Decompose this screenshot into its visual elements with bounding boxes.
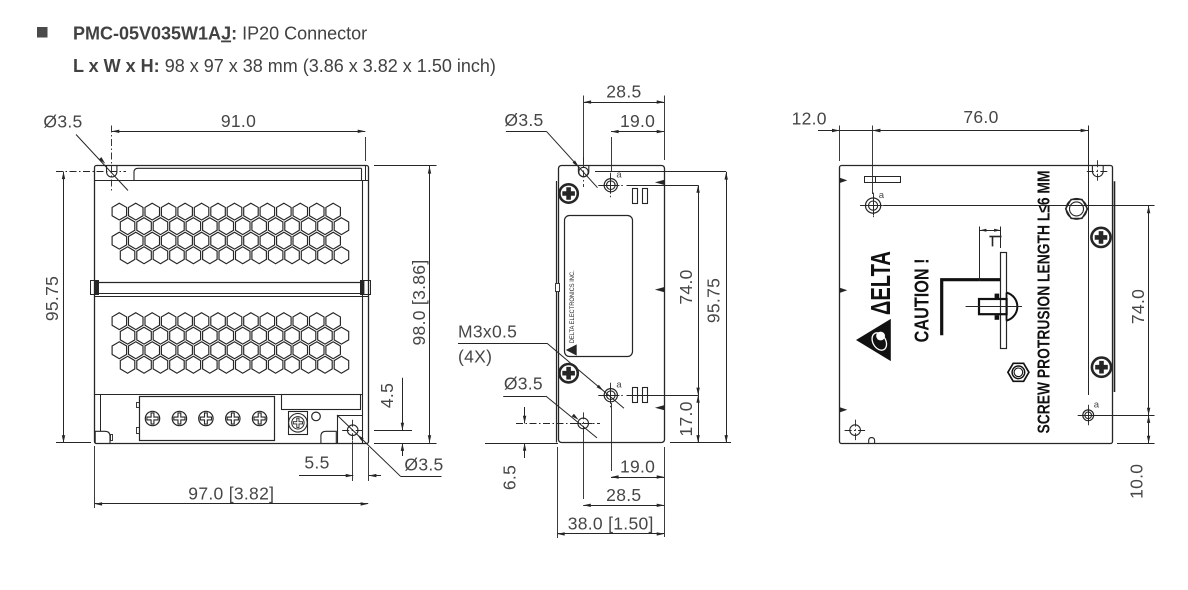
side view: bottom hole: [578, 418, 589, 429]
svg-text:Ø3.5: Ø3.5: [504, 374, 543, 394]
front view: terminal screw 3: [199, 411, 213, 425]
svg-text:97.0 [3.82]: 97.0 [3.82]: [188, 484, 274, 504]
front view: terminal screw 1: [145, 411, 159, 425]
back view: screw illustration - L dimension: [979, 227, 981, 282]
front view: bottom-right hole: [347, 425, 358, 436]
back view: bottom-left hole: [850, 425, 861, 436]
svg-text:a: a: [879, 190, 885, 201]
svg-text:95.75: 95.75: [42, 276, 62, 321]
front view: small indicator circle: [312, 412, 321, 421]
front view: right foot: [321, 431, 336, 443]
back view: section arrows on left edge: [840, 178, 848, 183]
svg-text:Ø3.5: Ø3.5: [404, 455, 443, 475]
svg-text:Ø3.5: Ø3.5: [43, 112, 82, 132]
front view: terminal block: [140, 397, 275, 441]
svg-text:38.0 [1.50]: 38.0 [1.50]: [568, 513, 654, 533]
front view: connector cover rect: [282, 395, 361, 410]
front view: terminal screw 2: [172, 411, 186, 425]
svg-text:ΔELTA: ΔELTA: [865, 251, 896, 315]
side view: section arrow mid: [655, 287, 665, 292]
back view: hex nut upper: [1066, 199, 1088, 218]
title bullet: [37, 27, 48, 38]
side view: M3 screw bottom: [604, 389, 617, 402]
svg-text:74.0: 74.0: [676, 269, 696, 304]
side view: ref line 74 top: [627, 185, 699, 187]
front view: lower hex vent panel: [112, 313, 127, 330]
svg-text:28.5: 28.5: [606, 485, 641, 505]
back view: screw protrusion illustration - chassis L bracket: [940, 278, 1000, 335]
svg-text:19.0: 19.0: [620, 457, 655, 477]
back view: screw illustration - center line: [966, 306, 1022, 308]
front view: upper hex vent panel: [112, 203, 127, 220]
front view: left foot: [95, 431, 110, 443]
back view: screw illustration - plate: [1001, 253, 1007, 349]
side view: body outline: [559, 166, 665, 443]
front view: ground screw box: [289, 412, 308, 435]
back view: screw illustration - thread marks: [995, 294, 1000, 299]
side view: left wall notch: [555, 283, 560, 292]
back view: mounting screw a top-left: [866, 198, 881, 213]
front view: top-left mounting slot: [107, 165, 117, 177]
svg-text:PMC-05V035W1AJ: IP20 Connector: PMC-05V035W1AJ: IP20 Connector: [73, 24, 367, 44]
svg-text:98.0 [3.86]: 98.0 [3.86]: [409, 259, 429, 345]
svg-text:a: a: [1094, 400, 1100, 411]
front view: middle band: [98, 282, 360, 284]
back view: screw illustration - screw body: [979, 299, 1007, 314]
side view: ref line 74 bottom: [627, 395, 699, 397]
back view: ref line 74 top: [884, 205, 1155, 207]
svg-text:91.0: 91.0: [221, 111, 256, 131]
side view: top ref line 95.75: [595, 171, 726, 173]
front view: lid top line: [134, 168, 362, 181]
side view: M3 screw top: [604, 179, 617, 192]
front view: bottom-right notch corner: [337, 415, 363, 417]
side view: cross screw top: [559, 184, 577, 202]
back view: cross screw lower: [1092, 358, 1111, 377]
svg-text:DELTA ELECTRONICS INC.: DELTA ELECTRONICS INC.: [569, 270, 576, 343]
svg-text:a: a: [616, 380, 622, 391]
svg-text:17.0: 17.0: [676, 401, 696, 436]
svg-text:4.5: 4.5: [377, 383, 397, 408]
side view: label plate: [565, 216, 633, 357]
side view: top slot: [578, 165, 588, 177]
back view: mounting screw a bottom-right: [1083, 410, 1094, 421]
svg-text:12.0: 12.0: [792, 109, 827, 129]
side view: section arrow top: [655, 180, 665, 185]
back view: top-left vent slot: [865, 177, 901, 183]
side view: cross screw bottom: [559, 364, 577, 382]
front view: bottom section top line: [95, 394, 363, 396]
side view: vent slots top: [633, 189, 638, 204]
svg-text:SCREW PROTRUSION LENGTH L≤6 M: SCREW PROTRUSION LENGTH L≤6 MM: [1034, 171, 1054, 434]
side view: vent slots bottom: [633, 388, 638, 403]
svg-text:(4X): (4X): [458, 347, 492, 367]
back view: body outline: [840, 166, 1113, 444]
svg-text:95.75: 95.75: [704, 278, 724, 323]
front view: body outline: [95, 166, 369, 444]
dim 91 extension: [365, 137, 367, 161]
side view: top hole: [579, 167, 588, 176]
side view: left wall outer line: [556, 181, 558, 443]
back view: delta logo: [856, 251, 896, 361]
svg-text:L x W x H: 98 x 97 x 38 mm (3.: L x W x H: 98 x 97 x 38 mm (3.86 x 3.82 …: [73, 56, 496, 76]
back view: cross screw upper: [1091, 228, 1110, 247]
front view: terminal screw 4: [226, 411, 240, 425]
svg-text:10.0: 10.0: [1127, 464, 1147, 499]
back view: screw illustration - corner mark: [989, 236, 1001, 238]
front view: top flange bottom line: [95, 180, 369, 182]
front view: terminal screw 5: [252, 411, 266, 425]
side view: section arrow bottom: [655, 405, 665, 410]
svg-text:Ø3.5: Ø3.5: [504, 110, 543, 130]
svg-text:M3x0.5: M3x0.5: [458, 322, 517, 342]
back view: bottom notch: [869, 438, 875, 444]
svg-text:5.5: 5.5: [304, 453, 329, 473]
svg-text:76.0: 76.0: [963, 107, 998, 127]
svg-text:CAUTION !: CAUTION !: [910, 258, 933, 342]
back view: top-right slot: [1092, 165, 1103, 176]
side view: delta triangle mark: [566, 344, 577, 355]
back view: right wall outer line: [1114, 181, 1116, 392]
svg-text:74.0: 74.0: [1128, 289, 1148, 324]
back view: hex nut lower: [1008, 363, 1029, 381]
svg-text:19.0: 19.0: [620, 111, 655, 131]
back view: screw illustration - screw head: [1007, 293, 1018, 321]
back view: ref line bottom screw: [1096, 415, 1155, 417]
svg-text:28.5: 28.5: [606, 82, 641, 102]
svg-text:6.5: 6.5: [500, 465, 520, 490]
front view: right side wall inner line: [362, 181, 364, 443]
front view: slot centerlines: [111, 126, 113, 193]
svg-text:a: a: [616, 170, 622, 181]
